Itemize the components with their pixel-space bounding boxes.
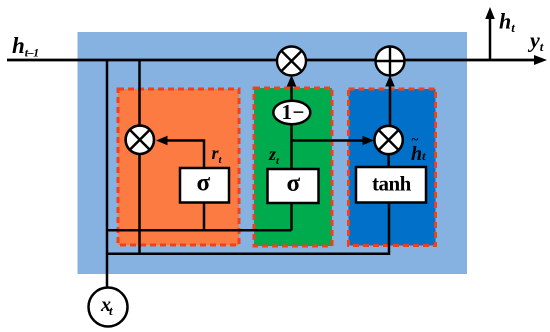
svg-text:~: ~ bbox=[412, 132, 419, 147]
svg-text:ht–1: ht–1 bbox=[12, 33, 39, 60]
svg-text:tanh: tanh bbox=[372, 172, 412, 196]
svg-text:σ: σ bbox=[287, 170, 301, 197]
wire z to candidate multiply (right, arrow) bbox=[292, 139, 369, 142]
wire sigma-r down to bus A bbox=[203, 203, 206, 231]
wire vertical drop at x=107 (h(t-1) to x_t junction) bbox=[106, 60, 109, 287]
multiply node on top line bbox=[277, 47, 306, 76]
wire candidate multiply up to add node (arrow) bbox=[389, 81, 392, 126]
reset-gate region (orange dashed box) bbox=[118, 89, 239, 245]
wire tanh down to bus B bbox=[388, 203, 391, 256]
add node on top line bbox=[376, 47, 405, 76]
sigma box (reset gate) bbox=[180, 168, 229, 203]
wire vertical drop at x=139.5 through reset multiply bbox=[138, 60, 141, 254]
svg-text:σ: σ bbox=[197, 170, 211, 197]
candidate multiply node bbox=[374, 126, 402, 154]
wire candidate multiply down to tanh bbox=[387, 154, 390, 168]
wire z branch down from one-minus to sigma-z bbox=[290, 124, 293, 169]
svg-text:1−: 1− bbox=[282, 100, 305, 124]
svg-text:ht: ht bbox=[499, 9, 515, 36]
tanh box bbox=[356, 167, 426, 203]
sigma box (update gate) bbox=[268, 169, 319, 203]
wire sigma-r to reset multiply (up then left, arrow) bbox=[161, 141, 204, 169]
bus A horizontal wire (inputs to gates) bbox=[107, 229, 292, 232]
arrowhead y_t output bbox=[534, 55, 547, 65]
wire one-minus up to multiply node (arrow) bbox=[290, 81, 293, 101]
wire h_t vertical output arrow bbox=[489, 12, 492, 60]
wire h(t-1) horizontal top line bbox=[7, 59, 540, 62]
bus B horizontal wire (to tanh) bbox=[107, 252, 390, 255]
reset multiply node bbox=[126, 126, 154, 154]
x_t input node bbox=[89, 288, 128, 327]
wire sigma-z down to bus A bbox=[290, 203, 293, 230]
cell body (GRU block background) bbox=[78, 32, 468, 274]
one-minus node (1-) bbox=[273, 101, 310, 125]
update-gate region (green dashed box) bbox=[254, 88, 332, 246]
candidate region (blue dashed box) bbox=[349, 89, 436, 246]
svg-text:yt: yt bbox=[527, 28, 544, 55]
